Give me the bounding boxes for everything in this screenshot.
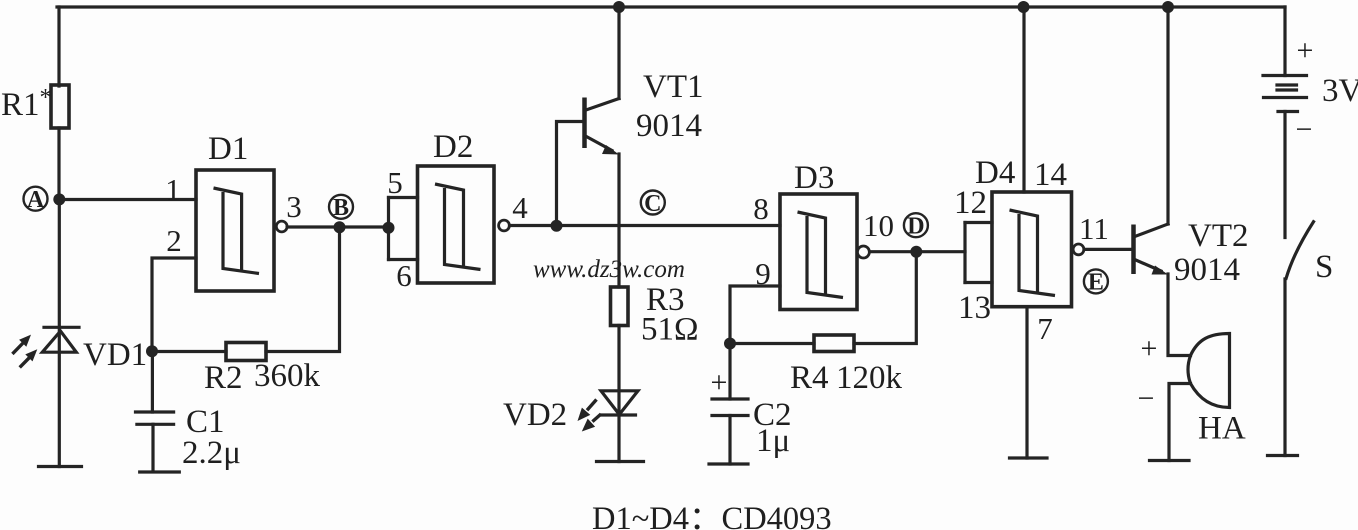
wire junction up to D1 pin 2: [152, 258, 196, 351]
junction VT1 base: [551, 220, 563, 232]
resistor R4: [790, 335, 903, 396]
pin 11 bubble: [1073, 244, 1084, 255]
svg-text:D1~D4：CD4093: D1~D4：CD4093: [592, 501, 832, 530]
svg-text:C: C: [644, 191, 661, 217]
svg-text:D2: D2: [433, 129, 473, 165]
wire rail to battery: [1283, 7, 1286, 76]
wire junction down to C1: [151, 351, 154, 412]
ground (VD1): [39, 465, 82, 468]
svg-text:3: 3: [286, 189, 302, 224]
capacitor C1: [136, 404, 241, 472]
svg-text:+: +: [1297, 34, 1314, 67]
svg-text:10: 10: [863, 208, 894, 243]
node D: [904, 213, 928, 258]
svg-text:D1: D1: [208, 131, 248, 167]
svg-text:VD1: VD1: [83, 337, 147, 373]
wire R1 to node A: [57, 128, 60, 200]
svg-text:−: −: [1138, 382, 1155, 415]
wire pin10 to D4 input tie: [870, 250, 965, 253]
wire R3 down through VD2 to ground: [617, 326, 620, 462]
svg-text:B: B: [333, 195, 349, 221]
svg-text:360k: 360k: [254, 358, 321, 394]
node X junction (pin2/R2/C1): [146, 345, 158, 357]
wire R4 to C2 junction: [730, 342, 814, 345]
transistor VT2: [1134, 7, 1249, 288]
junction on rail (VT1 collector): [613, 1, 625, 13]
svg-text:9014: 9014: [636, 108, 702, 144]
svg-text:51Ω: 51Ω: [641, 312, 699, 348]
svg-text:D3: D3: [794, 160, 834, 196]
ground (C2): [709, 462, 748, 465]
svg-text:4: 4: [512, 190, 528, 225]
wire left drop from rail to R1: [57, 7, 60, 86]
ground (C1): [140, 470, 180, 473]
svg-text:5: 5: [387, 165, 403, 200]
ground (VD2): [597, 460, 644, 463]
svg-text:14: 14: [1034, 157, 1067, 193]
node B: [329, 195, 353, 234]
svg-text:8: 8: [753, 191, 769, 226]
svg-text:3V: 3V: [1322, 73, 1358, 109]
svg-text:www.dz3w.com: www.dz3w.com: [533, 256, 685, 283]
junction C2: [724, 338, 736, 350]
svg-text:D: D: [907, 214, 924, 240]
ground (HA): [1150, 459, 1190, 462]
wire VT1 emitter down to R3: [617, 154, 620, 287]
svg-text:S: S: [1315, 249, 1333, 285]
speaker HA: [1138, 332, 1246, 461]
svg-text:A: A: [27, 187, 45, 213]
svg-text:E: E: [1088, 270, 1104, 296]
wire node A down through VD1 to ground: [58, 200, 61, 467]
ground (switch): [1268, 454, 1298, 457]
svg-text:1μ: 1μ: [756, 423, 790, 459]
wire pin 14 to rail: [1022, 7, 1025, 192]
svg-text:D4: D4: [975, 155, 1015, 191]
gate D3: [780, 160, 857, 310]
switch S: [1286, 222, 1333, 285]
transistor VT1: [557, 7, 704, 226]
svg-text:9: 9: [755, 256, 771, 291]
gate D4: [975, 155, 1072, 307]
junction on rail (pin14): [1018, 1, 1030, 13]
svg-text:120k: 120k: [836, 360, 903, 396]
svg-text:HA: HA: [1198, 411, 1246, 447]
wire battery to switch: [1283, 112, 1286, 238]
wire pin3 to D2 input tie: [287, 225, 388, 228]
svg-text:R4: R4: [790, 360, 829, 396]
wire pin 7 to ground: [1025, 307, 1028, 458]
capacitor C2: [711, 344, 792, 465]
svg-text:VD2: VD2: [503, 397, 567, 433]
svg-text:11: 11: [1079, 211, 1109, 246]
resistor R1: [1, 85, 69, 128]
svg-text:1: 1: [165, 172, 181, 207]
svg-text:13: 13: [958, 290, 991, 326]
wire node B down to R2: [266, 227, 340, 351]
wire node C: pin4 to D3 pin 8: [510, 224, 781, 227]
svg-text:9014: 9014: [1174, 252, 1240, 288]
svg-text:2: 2: [166, 223, 182, 258]
gate D1: [196, 131, 274, 291]
node A: [24, 187, 66, 213]
pin 10 bubble: [857, 246, 869, 258]
battery 3V: [1263, 34, 1358, 146]
wire R2 to junction: [152, 350, 226, 353]
svg-text:7: 7: [1037, 311, 1053, 346]
LED VD2: [503, 391, 638, 433]
photodiode VD1: [12, 327, 147, 373]
node E: [1084, 269, 1108, 295]
pin 4 bubble: [499, 220, 510, 231]
svg-text:−: −: [1296, 113, 1313, 146]
svg-text:+: +: [1141, 332, 1158, 365]
svg-text:+: +: [711, 366, 728, 399]
wire node A to D1 pin 1: [59, 198, 196, 201]
svg-text:VT2: VT2: [1188, 218, 1249, 254]
pin 3 bubble: [276, 221, 287, 232]
wire node D down to R4: [854, 252, 916, 344]
wire switch to ground: [1283, 279, 1286, 456]
wire D3 pin 9: [730, 286, 780, 344]
resistor R3: [611, 282, 699, 348]
ground (pin 7): [1010, 456, 1048, 459]
gate D4 input tie pins 12/13: [954, 185, 992, 326]
svg-text:VT1: VT1: [643, 69, 704, 105]
wire pin11 to VT2 base: [1084, 248, 1134, 251]
junction on rail (VT2 collector): [1162, 1, 1174, 13]
node C: [641, 191, 665, 218]
svg-text:6: 6: [396, 258, 412, 293]
wire top supply rail: [57, 5, 1285, 8]
gate D2: [418, 129, 495, 283]
svg-text:2.2μ: 2.2μ: [182, 435, 241, 471]
resistor R2: [204, 343, 321, 397]
gate D2 input tie pins 5/6: [383, 165, 418, 293]
wire VT2 emitter to speaker: [1168, 274, 1191, 356]
svg-text:R2: R2: [204, 360, 243, 396]
